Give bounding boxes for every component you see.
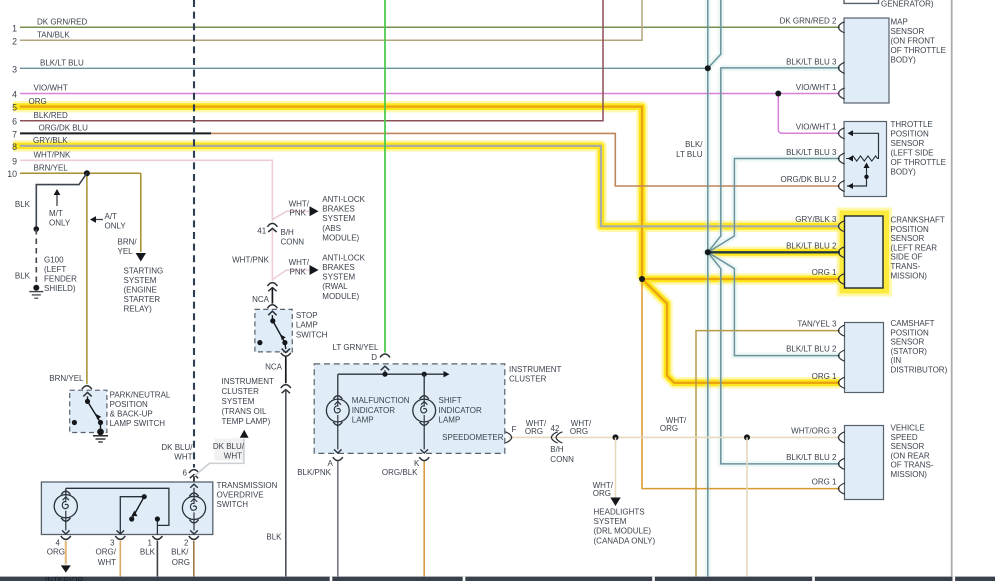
svg-text:WHT: WHT xyxy=(224,451,242,460)
wire BLK from stop lamp switch to bottom xyxy=(285,357,287,383)
arrow to ANTI-LOCK BRAKES SYSTEM (ABS) xyxy=(310,206,319,216)
wire ORG thin to vehicle speed sensor pin 1 xyxy=(642,279,840,489)
svg-text:ORG: ORG xyxy=(660,424,678,433)
svg-text:CAMSHAFT: CAMSHAFT xyxy=(891,319,935,328)
wire ORG to camshaft pin 1 xyxy=(642,279,840,383)
svg-text:THROTTLE: THROTTLE xyxy=(891,120,933,129)
svg-text:SWITCH: SWITCH xyxy=(296,331,328,340)
pin 1 vss connector xyxy=(838,483,844,494)
TOD switch blade xyxy=(120,497,144,535)
svg-text:BRAKES: BRAKES xyxy=(322,263,354,272)
pin 3 MAP connector xyxy=(838,62,844,73)
wire BRN/YEL drop to starting system xyxy=(140,173,142,252)
wire LT GRN/YEL vertical xyxy=(384,0,386,353)
pin 3 throttle connector xyxy=(838,153,844,164)
svg-text:DK BLU/: DK BLU/ xyxy=(161,443,193,452)
svg-text:ONLY: ONLY xyxy=(105,221,127,230)
svg-text:BLK/LT BLU: BLK/LT BLU xyxy=(40,59,84,68)
highlight band wire 8 GRY/BLK xyxy=(13,146,840,226)
wire into transmission overdrive switch xyxy=(193,474,195,482)
pin 2 vss connector xyxy=(838,458,844,469)
throttle position sensor box xyxy=(844,122,887,197)
svg-text:BLK: BLK xyxy=(15,271,31,280)
svg-text:(TRANS OIL: (TRANS OIL xyxy=(222,407,267,416)
svg-text:BLK/LT BLU 2: BLK/LT BLU 2 xyxy=(786,241,837,250)
cluster top rail xyxy=(338,373,445,375)
svg-text:MALFUNCTION: MALFUNCTION xyxy=(352,396,410,405)
node cluster rail dot 1 xyxy=(382,372,387,377)
instrument cluster box xyxy=(314,364,505,454)
svg-text:3: 3 xyxy=(110,539,115,548)
svg-text:(LEFT REAR: (LEFT REAR xyxy=(891,243,938,252)
svg-text:SENSOR: SENSOR xyxy=(891,338,925,347)
wire 8 GRY/BLK xyxy=(20,146,840,226)
cluster D entry xyxy=(381,366,389,370)
TOD lamp 1 xyxy=(65,488,67,494)
svg-text:LAMP SWITCH: LAMP SWITCH xyxy=(110,419,166,428)
wire 10 BRN/YEL xyxy=(20,172,141,174)
node junction WHT/ORG 1 xyxy=(613,434,619,440)
wire 3 BLK/LT BLU xyxy=(20,67,708,69)
svg-text:OF THROTTLE: OF THROTTLE xyxy=(891,46,946,55)
svg-text:SYSTEM: SYSTEM xyxy=(322,214,355,223)
svg-text:(RWAL: (RWAL xyxy=(322,282,348,291)
vehicle speed sensor box xyxy=(845,426,884,500)
svg-text:(DRL MODULE): (DRL MODULE) xyxy=(594,527,652,536)
node junction BLK/LT BLU fan xyxy=(705,249,711,255)
svg-text:PNK: PNK xyxy=(290,267,307,276)
cluster pin A connector xyxy=(333,457,343,460)
svg-text:BLK/LT BLU 2: BLK/LT BLU 2 xyxy=(786,345,837,354)
svg-text:WHT/PNK: WHT/PNK xyxy=(232,255,270,264)
connector at park/neutral switch input xyxy=(82,386,92,389)
TOD terminal 3 connector xyxy=(115,536,125,539)
svg-text:4: 4 xyxy=(56,539,61,548)
svg-text:ORG/: ORG/ xyxy=(96,548,117,557)
svg-text:G100: G100 xyxy=(44,256,64,265)
svg-text:6: 6 xyxy=(12,117,17,127)
pin 2 crankshaft connector xyxy=(838,247,844,258)
park/neutral switch box xyxy=(70,390,107,432)
MAP sensor box xyxy=(844,18,889,103)
svg-text:(STATOR): (STATOR) xyxy=(891,347,928,356)
malfunction indicator lamp xyxy=(337,374,339,399)
arrow terminal 4 to interior xyxy=(61,565,71,572)
svg-text:BLK/: BLK/ xyxy=(171,548,189,557)
svg-text:SWITCH: SWITCH xyxy=(217,500,249,509)
svg-text:BRN/: BRN/ xyxy=(118,238,138,247)
svg-text:POSITION: POSITION xyxy=(891,225,929,234)
svg-text:(ENGINE: (ENGINE xyxy=(124,285,157,294)
wire WHT/ORG vertical to bottom xyxy=(746,437,748,576)
wire BLK/LT BLU vertical B upper with jog xyxy=(708,0,721,68)
svg-text:PARK/NEUTRAL: PARK/NEUTRAL xyxy=(110,391,171,400)
svg-text:(IN: (IN xyxy=(891,356,902,365)
node throttle wiper junction xyxy=(864,175,868,179)
svg-text:SENSOR: SENSOR xyxy=(891,139,925,148)
svg-text:SENSOR: SENSOR xyxy=(891,27,925,36)
svg-text:TAN/YEL 3: TAN/YEL 3 xyxy=(797,320,837,329)
bottom bar xyxy=(0,577,995,581)
park/neutral switch internals xyxy=(83,392,91,396)
svg-text:DK GRN/RED: DK GRN/RED xyxy=(37,18,87,27)
wire 9 WHT/PNK xyxy=(20,160,272,221)
svg-text:SYSTEM: SYSTEM xyxy=(322,273,355,282)
svg-text:3: 3 xyxy=(12,64,17,74)
node dot at G100 xyxy=(33,285,39,291)
pin 1 camshaft connector xyxy=(838,377,844,388)
svg-text:MODULE): MODULE) xyxy=(322,292,359,301)
svg-text:ORG/DK BLU: ORG/DK BLU xyxy=(39,124,89,133)
node junction ORG xyxy=(639,276,645,282)
svg-text:ORG 1: ORG 1 xyxy=(812,268,837,277)
svg-text:4: 4 xyxy=(12,90,17,100)
svg-text:TAN/BLK: TAN/BLK xyxy=(37,31,70,40)
svg-text:OF THROTTLE: OF THROTTLE xyxy=(891,158,946,167)
svg-text:41: 41 xyxy=(257,227,266,236)
svg-text:7: 7 xyxy=(12,129,17,139)
generator box partial xyxy=(844,0,879,3)
wire 2 TAN/BLK xyxy=(20,0,642,40)
svg-text:VIO/WHT: VIO/WHT xyxy=(34,84,68,93)
throttle internal potentiometer xyxy=(852,133,879,152)
svg-text:(LEFT SIDE: (LEFT SIDE xyxy=(891,148,934,157)
speedometer output connector F xyxy=(505,432,511,443)
svg-text:TRANS-: TRANS- xyxy=(891,262,921,271)
svg-text:POSITION: POSITION xyxy=(891,328,929,337)
wire BLK branch from BRN/YEL junction xyxy=(36,173,87,229)
svg-text:1: 1 xyxy=(148,539,153,548)
pin 3 vss connector xyxy=(838,432,844,443)
svg-text:MAP: MAP xyxy=(891,18,908,27)
svg-text:DK GRN/RED 2: DK GRN/RED 2 xyxy=(780,17,837,26)
svg-text:B/H: B/H xyxy=(281,228,295,237)
svg-text:CLUSTER: CLUSTER xyxy=(509,374,547,383)
wire ORG terminal 4 xyxy=(65,541,67,565)
pin 1 throttle connector xyxy=(838,128,844,139)
throttle wiper xyxy=(847,166,867,187)
svg-text:ORG 1: ORG 1 xyxy=(812,372,837,381)
wire 4 VIO/WHT xyxy=(20,93,840,95)
svg-text:5: 5 xyxy=(12,103,17,113)
wire 1 DK GRN/RED xyxy=(20,26,840,28)
TOD lamp 2 xyxy=(190,484,198,488)
svg-text:TEMP LAMP): TEMP LAMP) xyxy=(222,417,271,426)
svg-text:ORG: ORG xyxy=(570,427,588,436)
svg-text:D: D xyxy=(371,353,377,362)
TOD terminal 1 riser xyxy=(156,519,158,535)
svg-text:BLK/PNK: BLK/PNK xyxy=(297,468,331,477)
wire ORG/BLK from cluster pin K xyxy=(423,462,425,577)
wire 6 BLK/RED xyxy=(20,0,603,121)
svg-text:NCA: NCA xyxy=(265,363,283,372)
svg-text:INTERIOR: INTERIOR xyxy=(45,576,83,581)
wire WHT/ORG drop to headlights xyxy=(615,437,617,497)
highlight crankshaft position sensor box xyxy=(837,208,893,297)
pin 1 MAP connector xyxy=(838,88,844,99)
wire BLK/PNK from cluster pin A xyxy=(337,462,339,577)
connector NCA on WHT/PNK xyxy=(267,283,277,286)
pin 2 camshaft connector xyxy=(838,350,844,361)
svg-text:42: 42 xyxy=(551,424,560,433)
TOD terminal 1 connector xyxy=(152,536,162,539)
svg-text:F: F xyxy=(512,425,517,434)
arrow to instrument cluster system xyxy=(240,430,249,438)
svg-text:YEL: YEL xyxy=(118,247,134,256)
wire BLK NCA to stop lamp switch xyxy=(271,288,273,304)
svg-text:VEHICLE: VEHICLE xyxy=(891,424,925,433)
svg-text:K: K xyxy=(414,459,420,468)
svg-text:MISSION): MISSION) xyxy=(891,271,928,280)
wire 9 WHT/PNK below B/H connector xyxy=(271,229,273,281)
svg-text:RELAY): RELAY) xyxy=(124,304,153,313)
svg-text:(LEFT: (LEFT xyxy=(44,265,66,274)
transmission overdrive switch box xyxy=(41,482,212,535)
wire 4 VIO/WHT drop to throttle pin 1 xyxy=(778,94,840,134)
wire BLK/LT BLU vertical C lower to camshaft pin 2 xyxy=(708,252,840,355)
wire BLK/LT BLU vertical A xyxy=(707,0,709,576)
svg-text:DISTRIBUTOR): DISTRIBUTOR) xyxy=(891,366,948,375)
wire WHT/PNK branch to RWAL module xyxy=(272,270,309,280)
svg-text:SENSOR: SENSOR xyxy=(891,442,925,451)
camshaft position sensor box xyxy=(845,323,884,393)
svg-text:LAMP: LAMP xyxy=(439,415,461,424)
park/neutral ground xyxy=(97,429,104,436)
svg-text:CLUSTER: CLUSTER xyxy=(222,387,260,396)
svg-text:ORG/BLK: ORG/BLK xyxy=(382,468,418,477)
shift indicator lamp xyxy=(423,374,425,399)
svg-text:(ON REAR: (ON REAR xyxy=(891,451,930,460)
page divider vertical line xyxy=(951,0,953,576)
svg-text:DK BLU/: DK BLU/ xyxy=(213,442,245,451)
svg-text:FENDER: FENDER xyxy=(44,274,77,283)
svg-text:INSTRUMENT: INSTRUMENT xyxy=(222,377,275,386)
svg-text:BLK/LT BLU 3: BLK/LT BLU 3 xyxy=(786,148,837,157)
cluster pin K connector xyxy=(419,457,429,460)
svg-text:2: 2 xyxy=(184,539,189,548)
svg-text:MISSION): MISSION) xyxy=(891,470,928,479)
svg-text:M/T: M/T xyxy=(49,209,63,218)
svg-text:STOP: STOP xyxy=(296,311,318,320)
svg-text:BODY): BODY) xyxy=(891,55,917,64)
arrow to starting system xyxy=(136,253,146,262)
stop lamp switch output connector xyxy=(282,349,290,353)
pin 1 crankshaft connector xyxy=(838,273,844,284)
TOD terminal 2 connector xyxy=(189,536,199,539)
stop lamp switch internals xyxy=(268,311,276,315)
svg-text:INSTRUMENT: INSTRUMENT xyxy=(509,365,562,374)
svg-text:SYSTEM: SYSTEM xyxy=(124,276,157,285)
svg-text:LT BLU: LT BLU xyxy=(676,150,703,159)
svg-text:PNK: PNK xyxy=(290,209,307,218)
svg-text:WHT: WHT xyxy=(174,452,192,461)
ground G100 xyxy=(29,291,43,293)
crankshaft position sensor box xyxy=(845,216,884,288)
svg-text:SIDE OF: SIDE OF xyxy=(891,253,923,262)
wire BLK terminal 1 xyxy=(156,541,158,577)
svg-text:2: 2 xyxy=(12,36,17,46)
svg-text:BLK/LT BLU 2: BLK/LT BLU 2 xyxy=(786,453,837,462)
svg-text:10: 10 xyxy=(7,169,17,179)
node junction BRN/YEL xyxy=(84,170,90,176)
svg-text:B/H: B/H xyxy=(550,445,564,454)
wire dashed data line xyxy=(193,0,195,468)
svg-text:ORG: ORG xyxy=(525,427,543,436)
wire 5 ORG to crankshaft pin 1 xyxy=(642,278,840,280)
connector NCA 2 inline xyxy=(281,385,291,388)
TOD terminal 4 connector xyxy=(61,536,71,539)
svg-text:(ON FRONT: (ON FRONT xyxy=(891,36,936,45)
wire TAN/YEL to camshaft pin 3 xyxy=(696,331,840,577)
svg-text:WHT/: WHT/ xyxy=(289,199,310,208)
svg-text:ONLY: ONLY xyxy=(49,219,71,228)
svg-text:ORG: ORG xyxy=(172,558,190,567)
svg-text:INDICATOR: INDICATOR xyxy=(352,406,395,415)
svg-text:6: 6 xyxy=(183,469,188,478)
svg-text:BLK: BLK xyxy=(266,532,282,541)
TOD top rail xyxy=(66,488,169,525)
svg-text:MODULE): MODULE) xyxy=(322,233,359,242)
pin 2 throttle connector xyxy=(838,180,844,191)
DK BLU/WHT label background xyxy=(215,439,246,461)
svg-text:INDICATOR: INDICATOR xyxy=(439,406,482,415)
wire WHT/PNK branch to ABS module xyxy=(272,211,309,219)
svg-text:TRANSMISSION: TRANSMISSION xyxy=(217,481,278,490)
svg-text:BRN/YEL: BRN/YEL xyxy=(49,374,84,383)
svg-text:ANTI-LOCK: ANTI-LOCK xyxy=(322,195,365,204)
svg-text:BLK/LT BLU 3: BLK/LT BLU 3 xyxy=(786,57,837,66)
svg-text:POSITION: POSITION xyxy=(110,400,148,409)
highlight band wire 5 ORG xyxy=(13,107,642,279)
svg-text:SPEED: SPEED xyxy=(891,433,918,442)
wire ORG/WHT terminal 3 xyxy=(119,541,121,577)
svg-text:BODY): BODY) xyxy=(891,167,917,176)
halo of BLK/LT BLU vertical net xyxy=(708,0,721,68)
wire 5 ORG main run xyxy=(20,107,642,279)
svg-text:& BACK-UP: & BACK-UP xyxy=(110,410,153,419)
svg-text:GENERATOR): GENERATOR) xyxy=(881,0,934,9)
svg-text:A/T: A/T xyxy=(105,212,118,221)
svg-text:A: A xyxy=(327,459,333,468)
pin 3 crankshaft connector xyxy=(838,221,844,232)
svg-text:ORG: ORG xyxy=(47,548,65,557)
svg-text:SYSTEM: SYSTEM xyxy=(222,397,255,406)
node TOD dot 1 xyxy=(155,516,160,521)
svg-text:WHT/: WHT/ xyxy=(289,258,310,267)
svg-text:BLK/: BLK/ xyxy=(685,140,703,149)
connector (( B/H CONN on WHT/ORG xyxy=(551,432,557,443)
wire BLK/LT BLU to throttle pin 3 and vertical C xyxy=(708,159,840,253)
svg-text:VIO/WHT 1: VIO/WHT 1 xyxy=(796,83,837,92)
svg-text:9: 9 xyxy=(12,156,17,166)
svg-text:(ABS: (ABS xyxy=(322,224,341,233)
svg-text:ORG: ORG xyxy=(29,97,47,106)
wire 7 ORG/DK BLU black segment xyxy=(20,132,211,134)
svg-text:BLK: BLK xyxy=(140,548,156,557)
connector 41 B/H CONN on WHT/PNK xyxy=(267,223,277,226)
svg-text:WHT: WHT xyxy=(98,558,116,567)
stop lamp switch box xyxy=(255,309,292,352)
svg-text:CRANKSHAFT: CRANKSHAFT xyxy=(891,216,945,225)
svg-text:BLK: BLK xyxy=(15,200,31,209)
wire BRN/YEL to park/neutral switch xyxy=(86,173,88,384)
wire DK BLU/WHT gray elbow to instrument cluster system xyxy=(194,439,244,476)
svg-text:POSITION: POSITION xyxy=(891,129,929,138)
svg-text:STARTER: STARTER xyxy=(124,295,161,304)
node junction BLK/LT BLU at MAP feed xyxy=(705,65,711,71)
svg-text:LAMP: LAMP xyxy=(296,321,318,330)
svg-text:GRY/BLK: GRY/BLK xyxy=(33,136,68,145)
svg-text:SHIFT: SHIFT xyxy=(439,396,462,405)
wire BLK/LT BLU to crankshaft pin 2 xyxy=(708,251,840,253)
svg-text:SHIELD): SHIELD) xyxy=(44,284,76,293)
wire BLK dashed shield to G100 xyxy=(35,229,37,286)
svg-text:STARTING: STARTING xyxy=(124,267,164,276)
svg-text:ORG/DK BLU 2: ORG/DK BLU 2 xyxy=(780,175,837,184)
svg-text:CONN: CONN xyxy=(550,455,574,464)
svg-text:HEADLIGHTS: HEADLIGHTS xyxy=(594,508,645,517)
svg-text:8: 8 xyxy=(12,142,17,152)
svg-text:BRN/YEL: BRN/YEL xyxy=(34,163,69,172)
svg-text:ORG 1: ORG 1 xyxy=(812,478,837,487)
svg-text:WHT/ORG 3: WHT/ORG 3 xyxy=(791,426,837,435)
svg-text:ORG: ORG xyxy=(593,489,611,498)
arrow to ANTI-LOCK BRAKES SYSTEM (RWAL) xyxy=(310,265,319,275)
svg-text:ANTI-LOCK: ANTI-LOCK xyxy=(322,253,365,262)
pin 2 MAP connector xyxy=(838,22,844,33)
wire WHT/ORG speedometer to vehicle speed sensor pin 3 xyxy=(509,436,840,438)
wire BLK lower segment xyxy=(285,390,287,577)
svg-text:LAMP: LAMP xyxy=(352,415,374,424)
svg-text:VIO/WHT 1: VIO/WHT 1 xyxy=(796,123,837,132)
wire BLK/LT BLU to MAP pin 3 xyxy=(708,68,840,252)
arrow M/T ONLY xyxy=(56,193,58,206)
wire BLK/ORG terminal 2 xyxy=(193,541,195,577)
svg-text:SYSTEM: SYSTEM xyxy=(594,517,627,526)
svg-text:LT GRN/YEL: LT GRN/YEL xyxy=(333,343,379,352)
wire 7 ORG/DK BLU brown segment to throttle pin 2 xyxy=(211,133,840,186)
svg-text:SENSOR: SENSOR xyxy=(891,234,925,243)
svg-text:(CANADA ONLY): (CANADA ONLY) xyxy=(594,536,656,545)
svg-text:SPEEDOMETER: SPEEDOMETER xyxy=(442,433,504,442)
connector at stop lamp switch input xyxy=(267,305,277,308)
svg-text:OF TRANS-: OF TRANS- xyxy=(891,461,934,470)
pin 3 camshaft connector xyxy=(838,325,844,336)
node dot on BLK ground lead xyxy=(34,226,40,232)
svg-text:BLK/RED: BLK/RED xyxy=(34,111,68,120)
node cluster rail dot 2 xyxy=(422,372,427,377)
svg-text:OVERDRIVE: OVERDRIVE xyxy=(217,491,264,500)
node junction VIO/WHT xyxy=(775,91,781,97)
svg-text:NCA: NCA xyxy=(252,295,270,304)
svg-text:WHT/PNK: WHT/PNK xyxy=(34,151,72,160)
svg-text:1: 1 xyxy=(12,23,17,33)
highlight band crankshaft ORG 1 wire xyxy=(642,273,840,285)
connector 6 at dashed line end xyxy=(189,470,199,473)
highlight band camshaft ORG 1 wire xyxy=(642,279,840,383)
highlight band crankshaft BLK/LT BLU 2 wire xyxy=(708,247,840,259)
svg-text:GRY/BLK 3: GRY/BLK 3 xyxy=(795,215,837,224)
svg-text:CONN: CONN xyxy=(281,237,305,246)
arrow to headlights system xyxy=(610,498,620,507)
node junction WHT/ORG 2 xyxy=(744,434,750,440)
wire BLK/LT BLU vertical B lower to vehicle speed sensor pin 2 xyxy=(708,252,840,464)
arrow A/T ONLY xyxy=(94,219,103,221)
svg-text:BRAKES: BRAKES xyxy=(322,205,354,214)
connector D at instrument cluster xyxy=(380,354,390,357)
